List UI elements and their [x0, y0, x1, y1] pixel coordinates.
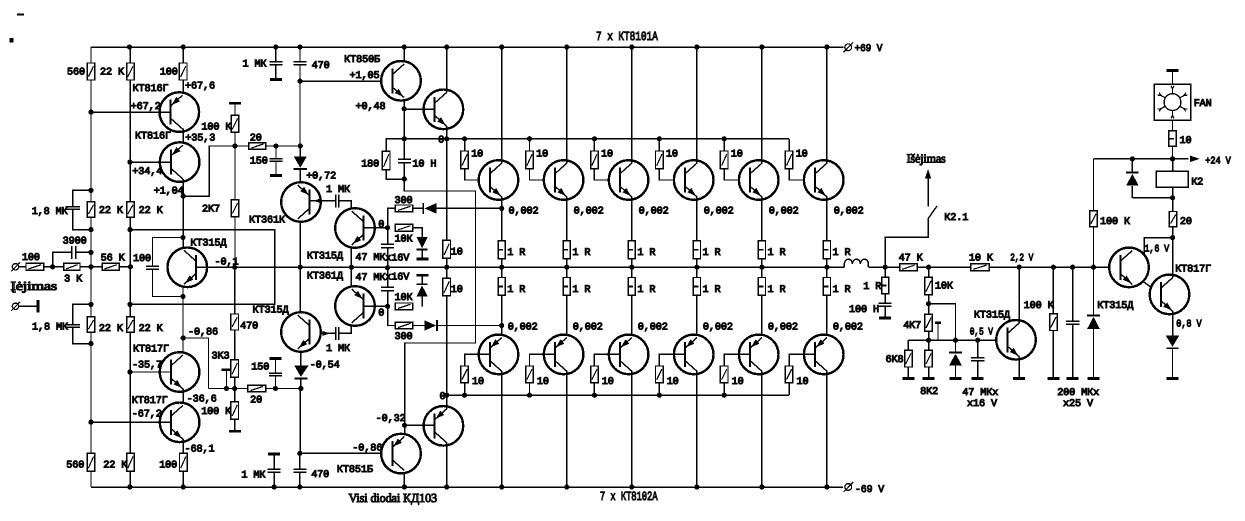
svg-text:100 K: 100 K: [1024, 301, 1055, 312]
svg-text:150: 150: [250, 157, 268, 168]
resistor 1R top Q5: [758, 241, 765, 259]
capacitor 1,8MK top: [73, 190, 91, 206]
svg-text:x16V: x16V: [385, 273, 410, 284]
resistor 10 base top Q5: [723, 139, 725, 151]
svg-text:1 R: 1 R: [572, 248, 590, 259]
resistor 470 feedback: [234, 267, 236, 314]
wire collector top Q4: [696, 47, 698, 163]
wire collector top Q2: [566, 47, 568, 163]
terminal +69 V: [845, 44, 852, 51]
svg-text:100: 100: [133, 254, 151, 265]
svg-text:560: 560: [67, 68, 85, 79]
svg-text:0,002: 0,002: [768, 323, 798, 334]
svg-text:КТ817Г: КТ817Г: [133, 345, 169, 356]
transistor KT817G Q2b: [160, 352, 200, 392]
svg-text:10К: 10К: [395, 293, 413, 304]
svg-text:1 R: 1 R: [572, 285, 590, 296]
diode KD103 bottom: [300, 352, 302, 366]
svg-text:0: 0: [438, 136, 444, 147]
svg-text:0,002: 0,002: [704, 206, 734, 217]
svg-text:К2: К2: [1191, 178, 1203, 189]
wire bias bracket 300/10K top: [388, 208, 396, 227]
resistor 10 base bottom Q7: [465, 354, 490, 366]
svg-text:0: 0: [378, 309, 384, 320]
svg-text:1 R: 1 R: [703, 285, 721, 296]
svg-text:1 R: 1 R: [507, 285, 525, 296]
wire KT315D lower to mid line: [299, 267, 301, 312]
svg-text:+69 V: +69 V: [855, 44, 884, 55]
svg-text:3K3: 3K3: [212, 352, 230, 363]
resistor 100K bottom: [234, 389, 236, 402]
resistor 10 base bottom Q12: [789, 354, 815, 366]
resistor 1R bottom Q6: [826, 267, 828, 277]
resistor 1R bottom Q5: [761, 267, 763, 277]
svg-text:1 R: 1 R: [703, 248, 721, 259]
capacitor 1MK rail bottom: [268, 453, 280, 456]
svg-text:7 x КТ8102А: 7 x КТ8102А: [600, 490, 658, 504]
svg-text:22 K: 22 K: [103, 460, 128, 471]
relay K2 coil: [1172, 159, 1174, 171]
resistor 22K top: [127, 63, 135, 80]
svg-text:3 K: 3 K: [64, 274, 83, 285]
wire VAS top collector to 0 node: [364, 227, 388, 229]
capacitor 150 bottom: [270, 357, 282, 360]
svg-text:+67,2: +67,2: [131, 102, 161, 113]
resistor 100K fan column: [1093, 159, 1095, 211]
transistor KT8102A Q7: [479, 335, 519, 375]
wire emitter top Q4: [696, 197, 698, 241]
svg-text:1,8 МК: 1,8 МК: [32, 322, 68, 333]
transistor follower bottom: [424, 406, 464, 446]
svg-text:10: 10: [666, 150, 678, 161]
svg-text:47 МК: 47 МК: [355, 253, 385, 264]
wire row y=146: [209, 145, 249, 147]
svg-text:0,002: 0,002: [833, 323, 863, 334]
svg-text:-0,86: -0,86: [352, 444, 382, 455]
svg-text:-67,2: -67,2: [132, 409, 162, 420]
svg-text:4K7: 4K7: [903, 321, 921, 332]
svg-text:-0,86: -0,86: [188, 327, 218, 338]
svg-text:200 МКх: 200 МКх: [1057, 388, 1099, 399]
wire KT315D right emitter to KT817G base: [1142, 281, 1160, 294]
resistor 10 fan: [1172, 120, 1174, 131]
wire bias bracket 300/10K bottom: [388, 306, 396, 325]
svg-text:КТ315Д: КТ315Д: [190, 238, 226, 249]
transistor follower top: [424, 90, 464, 130]
resistor 10 base top Q6: [788, 139, 790, 151]
svg-text:0,002: 0,002: [573, 323, 603, 334]
svg-text:7 x КТ8101А: 7 x КТ8101А: [596, 30, 658, 44]
transistor KT315D current mirror: [168, 247, 208, 287]
svg-text:2,2 V: 2,2 V: [1010, 253, 1034, 264]
svg-text:КТ851Б: КТ851Б: [337, 465, 373, 476]
transistor KT850B: [381, 61, 421, 101]
svg-text:0,002: 0,002: [769, 206, 799, 217]
svg-text:0: 0: [378, 220, 384, 231]
capacitor 1MK rail top: [275, 47, 277, 62]
svg-text:1 МК: 1 МК: [326, 344, 350, 355]
svg-text:47 МК: 47 МК: [355, 273, 385, 284]
wire VAS top emitter: [350, 248, 352, 268]
wire L-link -0,86 to row: [183, 338, 208, 389]
capacitor 1MK VAS top: [311, 200, 336, 202]
svg-text:0,5 V: 0,5 V: [970, 328, 994, 339]
svg-text:6K8: 6K8: [886, 355, 904, 366]
svg-text:КТ817Г: КТ817Г: [1175, 264, 1211, 275]
svg-text:х16 V: х16 V: [967, 399, 998, 410]
wire link 22K to VAS input top: [130, 230, 275, 305]
wire emitter bottom Q1: [501, 295, 503, 337]
capacitor 3900 branch: [53, 252, 72, 266]
svg-text:КТ816Г: КТ816Г: [133, 84, 169, 95]
transistor KT816G Q1: [160, 92, 200, 132]
resistor 2K7: [234, 146, 236, 200]
resistor 10 base top Q4: [658, 139, 660, 151]
resistor 8K2: [928, 340, 930, 350]
svg-text:Įėjimas: Įėjimas: [11, 279, 58, 293]
svg-text:КТ315Д: КТ315Д: [1097, 301, 1133, 312]
svg-text:470: 470: [311, 470, 329, 481]
resistor 1R top Q1: [498, 241, 505, 259]
svg-text:100 Н: 100 Н: [849, 305, 879, 316]
svg-text:1 R: 1 R: [768, 248, 786, 259]
svg-text:-0,32: -0,32: [376, 414, 406, 425]
wire collector bottom Q11: [761, 371, 763, 487]
wire column x=130.4: [129, 47, 131, 63]
svg-text:10: 10: [537, 377, 549, 388]
wire emitter top Q3: [631, 197, 633, 241]
diode protection: [955, 340, 957, 352]
wire bias row bottom: [447, 394, 789, 396]
svg-text:0,002: 0,002: [834, 206, 864, 217]
capacitor 1,8MK bottom: [73, 304, 91, 324]
svg-text:0,002: 0,002: [574, 206, 604, 217]
svg-text:КТ816Г: КТ816Г: [135, 132, 171, 143]
svg-text:10: 10: [796, 150, 808, 161]
wire protection base row: [929, 304, 956, 341]
svg-text:22 K: 22 K: [99, 324, 124, 335]
resistor 10K bias top: [395, 224, 413, 231]
wire bias row top: [404, 138, 789, 140]
terminal input ground stub: [12, 303, 18, 309]
svg-text:22 K: 22 K: [139, 324, 164, 335]
svg-text:1 МК: 1 МК: [243, 59, 267, 70]
wire follower column: [446, 139, 448, 241]
wire collector bottom Q8: [566, 371, 568, 487]
svg-text:10: 10: [471, 150, 483, 161]
resistor 10K bias bottom: [395, 303, 413, 310]
svg-text:10: 10: [797, 377, 809, 388]
svg-text:-0,54: -0,54: [310, 360, 340, 371]
svg-text:1,8 МК: 1,8 МК: [32, 207, 68, 218]
svg-text:560: 560: [66, 460, 84, 471]
svg-text:0,002: 0,002: [638, 323, 668, 334]
svg-text:КТ850Б: КТ850Б: [344, 55, 380, 66]
resistor 300 bottom: [395, 322, 413, 329]
svg-text:1 R: 1 R: [637, 285, 655, 296]
resistor 10 base top Q1: [464, 139, 466, 151]
wire emitter top Q1: [501, 197, 503, 241]
svg-text:Išėjimas: Išėjimas: [907, 151, 946, 165]
resistor 10 base bottom Q11: [724, 354, 750, 366]
wire +69V top rail: [91, 46, 844, 48]
svg-text:100 K: 100 K: [201, 123, 232, 134]
resistor 3K3: [234, 330, 236, 360]
wire emitter bottom Q6: [826, 295, 828, 337]
svg-text:1 МК: 1 МК: [326, 185, 350, 196]
svg-text:КТ817Г: КТ817Г: [132, 396, 168, 407]
wire Q2b-Q1b link: [182, 389, 184, 406]
wire L-link +1,04 to row: [183, 146, 209, 196]
svg-text:100: 100: [160, 68, 178, 79]
wire emitter bottom Q2: [566, 295, 568, 337]
resistor 10 upper: [443, 240, 451, 258]
svg-text:20: 20: [1180, 217, 1192, 228]
capacitor 470 rail bottom: [299, 453, 301, 469]
resistor 1R bottom Q3: [631, 267, 633, 277]
fan box FAN: [1154, 84, 1191, 120]
svg-text:+0,72: +0,72: [306, 171, 336, 182]
svg-text:10: 10: [451, 285, 463, 296]
transistor KT8101A Q1: [479, 160, 519, 200]
resistor 100K protection: [1052, 267, 1054, 314]
svg-text:10: 10: [472, 377, 484, 388]
wire KT850B base: [299, 81, 301, 146]
svg-text:100: 100: [159, 460, 177, 471]
resistor 100 top: [179, 63, 187, 80]
transistor KT817G Q1b: [160, 403, 200, 443]
svg-text:10: 10: [601, 150, 613, 161]
capacitor 47MKx x16V: [977, 340, 979, 357]
svg-text:-35,7: -35,7: [132, 360, 162, 371]
svg-text:1 R: 1 R: [863, 282, 881, 293]
svg-text:0: 0: [440, 392, 446, 403]
resistor 10 base bottom Q10: [659, 354, 685, 366]
switch K2.1: [885, 219, 928, 268]
resistor 1R top Q3: [628, 241, 635, 259]
svg-text:10: 10: [602, 377, 614, 388]
svg-text:10 Н: 10 Н: [412, 159, 436, 170]
resistor 6K8: [907, 340, 909, 350]
resistor 22K bottom: [127, 453, 135, 471]
resistor 10 base bottom Q8: [530, 354, 555, 366]
wire Q1-Q2 link: [182, 129, 184, 146]
wire KT850B emitter: [403, 101, 405, 139]
resistor 1R top Q6: [823, 241, 830, 259]
wire emitter top Q2: [566, 197, 568, 241]
wire collector bottom Q10: [696, 371, 698, 487]
zobel capacitor 100H: [884, 294, 886, 304]
svg-text:0,002: 0,002: [703, 323, 733, 334]
capacitor 47MK x16V bottom: [387, 268, 389, 287]
resistor 20 relay: [1172, 198, 1174, 212]
svg-text:10: 10: [1180, 136, 1192, 147]
transistor KT8101A Q2: [544, 160, 584, 200]
wire left column x=91: [90, 47, 92, 63]
wire collector bottom Q12: [826, 371, 828, 487]
transistor KT361K: [281, 182, 321, 222]
wire emitter bottom Q4: [696, 295, 698, 337]
svg-text:470: 470: [240, 322, 258, 333]
svg-text:10 K: 10 K: [969, 253, 994, 264]
svg-text:2K7: 2K7: [202, 205, 220, 216]
wire Q1b emitter: [182, 439, 184, 454]
diode KT817G emitter: [1166, 336, 1179, 347]
svg-text:+67,6: +67,6: [185, 81, 215, 92]
svg-text:КТ361Д: КТ361Д: [307, 272, 343, 283]
wire collector top Q5: [761, 47, 763, 163]
transistor KT851B: [381, 434, 421, 474]
svg-text:0,002: 0,002: [509, 206, 539, 217]
svg-text:1,6 V: 1,6 V: [1145, 244, 1170, 255]
transistor KT8101A Q4: [674, 160, 714, 200]
wire collector bottom Q9: [631, 371, 633, 487]
svg-text:10: 10: [451, 248, 463, 259]
svg-text:-36,6: -36,6: [187, 395, 217, 406]
svg-text:100: 100: [22, 253, 40, 264]
transistor KT315D lower: [281, 312, 321, 352]
resistor 1R top Q4: [693, 241, 700, 259]
transistor KT8101A Q6: [804, 160, 844, 200]
svg-text:КТ361К: КТ361К: [249, 216, 285, 227]
wire mid output line: [195, 266, 844, 268]
svg-text:КТ315Д: КТ315Д: [974, 311, 1010, 322]
resistor 20 top: [249, 143, 266, 150]
svg-text:300: 300: [395, 332, 413, 343]
svg-text:22 K: 22 K: [99, 206, 124, 217]
wire collector top Q1: [501, 47, 503, 163]
wire emitter bottom Q5: [761, 295, 763, 337]
wire 1,6V node link: [1144, 238, 1173, 254]
transistor KT315D protection: [996, 320, 1036, 360]
diode relay flyback: [1131, 159, 1133, 172]
capacitor 100 mirror bracket: [153, 238, 184, 266]
svg-text:КТ315Д: КТ315Д: [253, 306, 289, 317]
wire cross link drivers: [404, 179, 475, 434]
diode bias bottom-right: [413, 325, 424, 327]
wire emitter top Q5: [761, 197, 763, 241]
wire KT817G emitter: [1172, 311, 1174, 335]
capacitor 47MK x16V top: [387, 228, 389, 244]
wire -69V bottom rail: [91, 486, 843, 488]
transistor KT361D VAS bottom: [335, 286, 375, 326]
svg-text:1 R: 1 R: [833, 285, 851, 296]
resistor 22K col2 mid-bottom: [127, 317, 135, 333]
svg-text:100 К: 100 К: [1100, 217, 1130, 228]
wire collector bottom Q7: [501, 371, 503, 487]
resistor 3K: [64, 263, 80, 270]
fan terminal bar: [1167, 69, 1179, 72]
transistor KT816G Q2: [160, 142, 200, 182]
svg-text:3900: 3900: [63, 236, 87, 247]
svg-text:10К: 10К: [935, 282, 953, 293]
svg-text:10К: 10К: [395, 235, 413, 246]
wire row y=388.5: [209, 388, 248, 390]
svg-text:1 R: 1 R: [637, 248, 655, 259]
svg-text:8K2: 8K2: [920, 387, 938, 398]
svg-text:+0,48: +0,48: [356, 102, 386, 113]
potentiometer 4K7: [928, 304, 930, 315]
svg-text:1 МК: 1 МК: [241, 470, 265, 481]
resistor 47K: [900, 264, 918, 271]
transistor KT315D right: [1109, 248, 1149, 288]
resistor 180 bracket: [386, 139, 404, 151]
wire KT851B base: [299, 389, 301, 454]
wire collector top Q6: [826, 47, 828, 163]
resistor 22K col1 mid-top: [87, 202, 95, 218]
terminal input Iejimas: [12, 264, 18, 270]
svg-text:470: 470: [312, 61, 330, 72]
junction dots: [127, 44, 132, 49]
svg-text:300: 300: [395, 196, 413, 207]
resistor 22K col1 mid-bottom: [87, 317, 95, 333]
transistor KT8101A Q3: [609, 160, 649, 200]
wire collector top Q3: [631, 47, 633, 163]
svg-text:х25 V: х25 V: [1063, 399, 1094, 410]
resistor 10 base top Q2: [529, 139, 531, 151]
resistor 20 bottom: [248, 385, 266, 392]
svg-text:-68,1: -68,1: [185, 444, 215, 455]
resistor 56K: [102, 263, 119, 270]
resistor 1R bottom Q1: [501, 267, 503, 277]
svg-text:20: 20: [250, 396, 262, 407]
resistor 10K vert: [928, 267, 930, 277]
svg-text:-0,1: -0,1: [215, 257, 239, 268]
diode bias bottom-up: [417, 274, 429, 277]
svg-text:1 R: 1 R: [507, 248, 525, 259]
svg-text:1 R: 1 R: [768, 285, 786, 296]
resistor 1R top Q2: [563, 241, 570, 259]
svg-text:10: 10: [731, 150, 743, 161]
svg-text:0,002: 0,002: [639, 206, 669, 217]
capacitor 1MK VAS bottom: [311, 332, 336, 334]
wire emitter top Q6: [826, 197, 828, 241]
resistor 10 base bottom Q9: [594, 354, 620, 366]
transistor KT8102A Q10: [674, 335, 714, 375]
potentiometer 100K top: [229, 102, 241, 105]
diode x=1093: [1093, 227, 1095, 267]
svg-text:150: 150: [251, 363, 269, 374]
wire mirror emitter to -0,86 node: [182, 287, 184, 355]
transistor KT8102A Q8: [544, 335, 584, 375]
transistor KT8101A Q5: [739, 160, 779, 200]
svg-text:К2.1: К2.1: [944, 213, 968, 224]
wire VAS bottom emitter: [350, 267, 352, 286]
svg-text:-69 V: -69 V: [855, 485, 885, 496]
svg-text:47 МКх: 47 МКх: [962, 388, 998, 399]
svg-text:0,002: 0,002: [508, 323, 538, 334]
svg-text:56 K: 56 K: [101, 253, 126, 264]
svg-text:47 K: 47 K: [899, 253, 924, 264]
transistor KT8102A Q12: [804, 335, 844, 375]
svg-text:FAN: FAN: [1194, 99, 1212, 110]
capacitor 200MKx x25V: [1072, 267, 1074, 321]
wire column x=183 top: [182, 47, 184, 63]
svg-text:x16V: x16V: [385, 254, 410, 265]
capacitor 10H: [403, 139, 405, 159]
resistor 560 bottom: [87, 453, 95, 471]
svg-text:+24 V: +24 V: [1205, 156, 1231, 167]
resistor 10 lower: [443, 278, 451, 296]
terminal -69 V: [845, 484, 852, 491]
diode bias top-left: [413, 207, 424, 209]
wire +24V line: [1094, 158, 1189, 160]
resistor 100 bottom emitter: [180, 453, 188, 471]
svg-text:+34,4: +34,4: [132, 167, 162, 178]
diode bias top-down: [413, 228, 422, 237]
inductor output: [844, 259, 868, 267]
svg-text:10: 10: [536, 150, 548, 161]
